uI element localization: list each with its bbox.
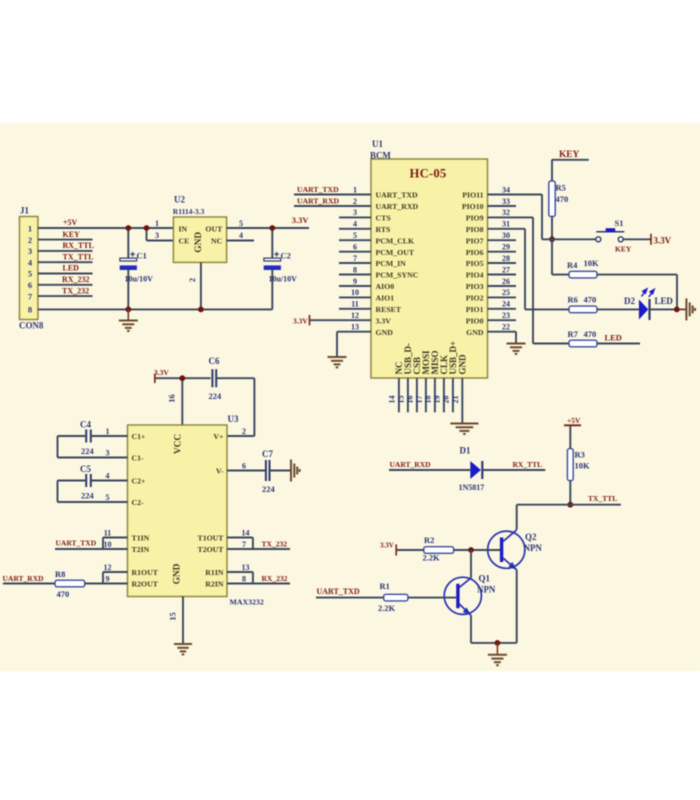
svg-text:470: 470	[556, 194, 569, 204]
svg-text:9: 9	[353, 277, 357, 286]
svg-text:CON8: CON8	[19, 321, 44, 331]
svg-text:10K: 10K	[584, 258, 599, 268]
U2 pin number 2 rotated	[187, 278, 197, 282]
wire UART_RXD to D1	[389, 469, 470, 471]
svg-text:PIO1: PIO1	[466, 305, 484, 314]
svg-text:C2+: C2+	[132, 477, 147, 486]
svg-text:KEY: KEY	[559, 150, 580, 160]
svg-text:R2IN: R2IN	[205, 580, 224, 589]
svg-text:21: 21	[451, 396, 460, 404]
svg-text:PIO4: PIO4	[466, 271, 484, 280]
net label RX_TTL	[63, 241, 95, 250]
svg-text:30: 30	[502, 231, 510, 240]
svg-text:RX_232: RX_232	[62, 275, 90, 284]
wire 3.3V port to pin12	[310, 319, 372, 321]
resistor R6 470	[568, 294, 598, 312]
svg-text:RTS: RTS	[376, 225, 391, 234]
svg-text:R6: R6	[568, 294, 578, 304]
wire S1 to 3.3V	[623, 238, 651, 240]
svg-text:6: 6	[353, 243, 357, 252]
wire R6 to D2	[597, 308, 639, 310]
svg-text:5: 5	[239, 219, 243, 228]
svg-text:3.3V: 3.3V	[376, 316, 392, 325]
wire KEY to R5	[551, 160, 553, 181]
svg-text:10: 10	[351, 288, 359, 297]
svg-text:UART_RXD: UART_RXD	[390, 460, 432, 469]
wire T1OUT/T2OUT TX_232	[227, 538, 290, 550]
U3 right pin numbers	[242, 427, 250, 584]
wire UART_RXD to pin2	[294, 205, 371, 207]
ground under C1	[119, 309, 138, 331]
U1 bottom pin stubs 14-21	[399, 378, 462, 423]
resistor R8 470	[55, 569, 85, 599]
net label RX_232	[62, 275, 90, 284]
svg-text:33: 33	[502, 197, 510, 206]
svg-text:2: 2	[187, 278, 197, 282]
wire +5V to R3	[569, 425, 571, 448]
svg-text:PCM_CLK: PCM_CLK	[376, 236, 415, 245]
svg-text:GND: GND	[173, 563, 183, 584]
svg-text:UART_TXD: UART_TXD	[317, 587, 360, 596]
U3 pin number 15 rotated	[168, 612, 178, 620]
wire V- to C7	[227, 470, 265, 472]
svg-text:UART_RXD: UART_RXD	[376, 202, 419, 211]
svg-text:S1: S1	[615, 218, 624, 228]
svg-text:19: 19	[433, 396, 442, 404]
svg-text:13: 13	[351, 323, 359, 332]
svg-text:PIO0: PIO0	[466, 316, 484, 325]
svg-text:10K: 10K	[575, 460, 590, 470]
svg-text:V-: V-	[216, 467, 224, 476]
net label TX_TTL	[63, 252, 94, 261]
junction LED cathode node	[674, 307, 680, 313]
svg-text:34: 34	[502, 185, 510, 194]
resistor R7 470	[568, 329, 598, 347]
svg-text:3: 3	[106, 449, 110, 458]
svg-text:V+: V+	[213, 432, 224, 441]
junction C1 top	[125, 225, 131, 231]
svg-text:R1114-3.3: R1114-3.3	[173, 207, 205, 216]
svg-text:8: 8	[242, 575, 246, 584]
wire CE branch	[147, 228, 174, 241]
svg-text:15: 15	[168, 612, 178, 620]
svg-text:14: 14	[388, 396, 397, 404]
svg-text:CTS: CTS	[376, 214, 391, 223]
U3 name VCC rotated	[174, 434, 184, 455]
svg-text:R2: R2	[424, 535, 434, 545]
bluetooth module U1 BCM HC-05	[370, 139, 488, 378]
U3 name GND rotated	[173, 563, 183, 584]
capacitor C1 10u/10V	[120, 228, 153, 309]
svg-text:31: 31	[502, 220, 510, 229]
svg-text:AIO0: AIO0	[376, 282, 395, 291]
U1 left pin names	[376, 191, 419, 337]
capacitor C7 224	[262, 449, 275, 494]
svg-text:2.2K: 2.2K	[378, 603, 396, 613]
svg-text:32: 32	[502, 208, 510, 217]
svg-text:10u/10V: 10u/10V	[269, 275, 298, 284]
wire U2 GND pin2 down	[200, 262, 202, 309]
svg-text:3.3V: 3.3V	[154, 368, 169, 377]
svg-text:R4: R4	[567, 260, 578, 270]
svg-text:AIO1: AIO1	[376, 294, 395, 303]
net label RX_232	[262, 574, 288, 583]
svg-text:1: 1	[155, 219, 159, 228]
svg-text:8: 8	[28, 305, 32, 315]
svg-text:UART_TXD: UART_TXD	[297, 185, 339, 194]
svg-text:25: 25	[502, 288, 510, 297]
svg-text:PIO9: PIO9	[466, 214, 484, 223]
net label TX_TTL	[588, 494, 617, 503]
svg-text:224: 224	[81, 490, 94, 500]
U1 bottom pin names rotated	[394, 341, 467, 375]
svg-text:R2OUT: R2OUT	[132, 580, 159, 589]
U2 pin name IN	[179, 224, 188, 233]
svg-text:8: 8	[353, 265, 357, 274]
wire D1 to RX_TTL	[483, 469, 545, 471]
svg-text:17: 17	[415, 396, 424, 404]
wire UART_RXD to R8	[3, 583, 55, 585]
svg-text:J1: J1	[20, 206, 29, 216]
svg-text:3.3V: 3.3V	[293, 316, 308, 325]
svg-text:1: 1	[28, 224, 32, 234]
svg-text:16: 16	[406, 396, 415, 404]
IC U3 MAX3232	[128, 414, 264, 607]
svg-text:24: 24	[502, 300, 510, 309]
svg-text:15: 15	[397, 396, 406, 404]
svg-text:20: 20	[442, 396, 451, 404]
svg-text:RESET: RESET	[376, 305, 402, 314]
capacitor C4 224	[58, 420, 128, 458]
svg-text:224: 224	[262, 484, 275, 494]
junction pin16 node	[179, 375, 185, 381]
ground right of C7	[291, 460, 300, 482]
power port 3.3V at S1	[651, 234, 672, 246]
svg-text:MAX3232: MAX3232	[230, 597, 264, 606]
svg-text:28: 28	[502, 254, 510, 263]
junction KEY node	[549, 236, 555, 242]
wire U1 pin32 to R7	[488, 217, 534, 343]
svg-text:470: 470	[584, 329, 597, 339]
svg-text:U1: U1	[372, 139, 383, 149]
svg-text:10: 10	[104, 540, 112, 549]
svg-text:PIO2: PIO2	[466, 294, 484, 303]
svg-text:13: 13	[242, 563, 250, 572]
wire R4 to LED cathode node	[597, 275, 677, 310]
svg-text:PIO3: PIO3	[466, 282, 484, 291]
U2 pin number 1	[155, 219, 159, 228]
power port 3.3V at U3 pin16	[154, 368, 169, 383]
junction Q2 base / Q1 collector	[468, 547, 474, 553]
wire TX_TTL to Q2 collector	[517, 505, 571, 530]
wire Q2 emitter down	[516, 570, 518, 643]
transistor Q1 NPN	[444, 574, 496, 616]
U2 pin name CE	[179, 237, 190, 246]
resistor R4 10K	[567, 258, 599, 278]
svg-text:1: 1	[106, 427, 110, 436]
ground right of D2	[686, 298, 695, 320]
wire 3.3V to C6 and pin16	[155, 378, 211, 425]
power port +5V	[564, 416, 581, 426]
wire R3 to TX_TTL node	[569, 481, 571, 505]
svg-text:4: 4	[353, 220, 357, 229]
svg-text:2: 2	[242, 427, 246, 436]
svg-text:C2: C2	[281, 250, 291, 260]
wire junction to S1	[542, 238, 596, 240]
net label LED at R7	[605, 333, 622, 343]
svg-text:UART_TXD: UART_TXD	[56, 538, 97, 547]
svg-text:R8: R8	[55, 569, 65, 579]
svg-text:+5V: +5V	[63, 218, 78, 227]
svg-text:C2-: C2-	[132, 498, 145, 507]
net label UART_RXD at R8	[3, 574, 45, 583]
svg-text:C1: C1	[137, 250, 147, 260]
svg-text:5: 5	[28, 269, 32, 279]
net label TX_232	[62, 286, 89, 295]
junction C1 bottom / ground node	[125, 307, 131, 313]
wire UART_TXD to R1	[316, 597, 384, 599]
svg-text:6: 6	[242, 462, 246, 471]
svg-text:T1IN: T1IN	[132, 534, 150, 543]
svg-text:224: 224	[209, 391, 222, 401]
wire R8 to R1OUT/R2OUT	[85, 572, 128, 584]
svg-text:11: 11	[351, 300, 359, 309]
net label UART_TXD at U1 pin1	[297, 185, 339, 194]
svg-text:1: 1	[353, 185, 357, 194]
diode D1 1N5817	[459, 446, 485, 493]
svg-text:PCM_IN: PCM_IN	[376, 259, 407, 268]
svg-text:U3: U3	[228, 414, 239, 424]
svg-text:C5: C5	[80, 464, 91, 474]
wire PIO8 to R6	[525, 308, 569, 310]
svg-text:7: 7	[353, 254, 357, 263]
wire Q1 emitter down	[470, 615, 472, 643]
svg-text:18: 18	[424, 396, 433, 404]
junction emitter ground node	[495, 640, 501, 646]
svg-text:4: 4	[106, 472, 110, 481]
svg-text:D2: D2	[624, 296, 635, 306]
U3 left pin names	[132, 432, 159, 589]
svg-text:D1: D1	[460, 446, 471, 456]
svg-text:16: 16	[167, 394, 177, 402]
svg-text:6: 6	[28, 280, 32, 290]
capacitor C2 10u/10V	[264, 228, 297, 309]
svg-text:Q2: Q2	[525, 532, 537, 542]
svg-text:3.3V: 3.3V	[654, 236, 672, 246]
net label UART_TXD at R1	[317, 587, 360, 596]
resistor R1 2.2K	[378, 581, 408, 613]
svg-text:R3: R3	[575, 449, 585, 459]
U1 left pin stubs 3-11	[339, 217, 371, 308]
svg-text:2.2K: 2.2K	[423, 553, 441, 563]
wire UART_TXD to pin1	[294, 194, 371, 196]
svg-text:3: 3	[155, 231, 159, 240]
svg-text:TX_232: TX_232	[262, 539, 288, 548]
wire J1 pin8 ground rail	[38, 308, 272, 310]
ground under Q1/Q2	[488, 643, 507, 665]
wire R1IN/R2IN RX_232	[227, 572, 290, 584]
resistor R2 2.2K	[423, 535, 454, 563]
wires J1 pins 2-7 net stubs	[38, 240, 93, 297]
U2 pin number 3	[155, 231, 159, 240]
U2 pin name GND rotated	[194, 232, 204, 253]
LED D2	[624, 289, 673, 320]
svg-text:PIO11: PIO11	[462, 191, 483, 200]
resistor R3 10K	[567, 449, 590, 481]
wire C7 to ground	[270, 470, 291, 472]
U2 pin name OUT	[205, 224, 223, 233]
svg-text:R1: R1	[380, 581, 390, 591]
svg-text:UART_TXD: UART_TXD	[376, 191, 419, 200]
svg-text:23: 23	[502, 311, 510, 320]
ground under U3 pin15	[174, 644, 192, 654]
U2 pin number 4	[239, 231, 243, 240]
wire U2 NC stub	[227, 240, 254, 242]
connector J1 CON8	[19, 206, 44, 331]
svg-text:CE: CE	[179, 237, 190, 246]
svg-text:GND: GND	[376, 328, 394, 337]
svg-text:TX_TTL: TX_TTL	[588, 494, 617, 503]
junction CE branch	[144, 225, 150, 231]
J1 pin numbers 1-8	[28, 224, 33, 315]
wire U1 pin34 to KEY node	[488, 195, 543, 240]
net label KEY top	[552, 150, 589, 160]
svg-text:LED: LED	[63, 264, 80, 273]
U1 right pin stubs	[488, 206, 517, 332]
svg-text:U2: U2	[174, 195, 185, 205]
svg-text:PIO6: PIO6	[466, 248, 484, 257]
wire TX_TTL right	[570, 504, 621, 506]
wire U1 pin13 GND down	[337, 332, 371, 356]
U1 left pin numbers 1-13	[351, 185, 359, 331]
svg-text:11: 11	[104, 529, 112, 538]
svg-text:RX_TTL: RX_TTL	[513, 460, 543, 469]
svg-text:R5: R5	[556, 183, 566, 193]
power port 3.3V at U1 pin12	[293, 315, 310, 325]
capacitor C5 224	[58, 464, 128, 502]
svg-text:T2OUT: T2OUT	[198, 545, 225, 554]
svg-text:27: 27	[502, 265, 510, 274]
svg-text:26: 26	[502, 277, 510, 286]
svg-text:3: 3	[28, 246, 32, 256]
net label +5V	[63, 218, 78, 227]
svg-text:3.3V: 3.3V	[292, 215, 310, 225]
U1 right pin numbers 34-22	[502, 185, 510, 331]
svg-text:NPN: NPN	[524, 543, 543, 553]
svg-text:R1OUT: R1OUT	[132, 568, 159, 577]
U3 right pin names	[198, 432, 225, 589]
svg-text:Q1: Q1	[479, 574, 490, 584]
wire PIO9 to R7	[533, 343, 569, 345]
svg-text:C4: C4	[80, 420, 91, 430]
wire R1 to Q1 base	[408, 597, 456, 599]
svg-text:KEY: KEY	[615, 244, 632, 253]
regulator U2 R1114-3.3	[173, 195, 227, 263]
ground under U1 pin21	[450, 424, 478, 434]
wire UART_TXD to T1IN/T2IN	[55, 538, 128, 550]
svg-text:14: 14	[242, 529, 250, 538]
svg-text:29: 29	[502, 243, 510, 252]
svg-text:GND: GND	[458, 354, 468, 375]
net label UART_RXD at D1	[390, 460, 432, 469]
svg-text:T1OUT: T1OUT	[198, 534, 225, 543]
svg-text:UART_RXD: UART_RXD	[3, 574, 45, 583]
svg-text:GND: GND	[466, 328, 484, 337]
svg-text:LED: LED	[605, 333, 622, 343]
svg-text:+5V: +5V	[567, 416, 581, 425]
svg-text:OUT: OUT	[205, 224, 223, 233]
U1 bottom pin numbers 14-21 rotated	[388, 396, 460, 404]
svg-text:3.3V: 3.3V	[380, 541, 395, 549]
wire D2 to ground node	[651, 308, 687, 310]
svg-text:KEY: KEY	[63, 230, 81, 239]
wire U3 pin15 GND down	[182, 597, 184, 644]
svg-text:3: 3	[353, 208, 357, 217]
svg-text:LED: LED	[655, 296, 673, 306]
svg-text:R1IN: R1IN	[205, 568, 224, 577]
resistor R5 470	[549, 181, 568, 217]
net label RX_TTL	[513, 460, 543, 469]
svg-text:PIO8: PIO8	[466, 225, 484, 234]
U1 right pin names	[462, 191, 484, 337]
capacitor C6 224	[209, 356, 222, 401]
net label UART_TXD at U3	[56, 538, 97, 547]
svg-text:C7: C7	[262, 449, 273, 459]
wire J1 pin1 +5V rail to U2 IN	[38, 227, 174, 229]
ground under U1 pin22	[507, 344, 526, 354]
wire KEY node down to R4	[552, 239, 569, 274]
svg-text:T2IN: T2IN	[132, 545, 150, 554]
U3 left pin numbers	[104, 427, 112, 584]
svg-text:12: 12	[351, 311, 359, 320]
wire 3.3V to R2	[396, 549, 424, 551]
svg-text:NC: NC	[211, 237, 223, 246]
svg-text:470: 470	[584, 294, 597, 304]
wire U1 pin22 GND down	[515, 332, 517, 343]
net label TX_232	[262, 539, 288, 548]
net label LED	[63, 264, 80, 273]
svg-text:9: 9	[106, 575, 110, 584]
svg-text:UART_RXD: UART_RXD	[297, 196, 340, 205]
svg-text:C1-: C1-	[132, 454, 145, 463]
wire U1 pin31 to R6	[488, 229, 526, 310]
svg-text:22: 22	[502, 323, 510, 332]
svg-text:10u/10V: 10u/10V	[125, 275, 154, 284]
svg-text:PIO10: PIO10	[462, 202, 484, 211]
svg-text:2: 2	[28, 235, 32, 245]
svg-text:PIO7: PIO7	[466, 236, 484, 245]
svg-text:RX_232: RX_232	[262, 574, 288, 583]
svg-text:C6: C6	[209, 356, 220, 366]
U2 pin number 5	[239, 219, 243, 228]
svg-text:TX_232: TX_232	[62, 286, 89, 295]
wire R2 to Q2 base	[454, 549, 500, 551]
svg-text:PCM_SYNC: PCM_SYNC	[376, 271, 419, 280]
net label 3.3V at U2 output	[292, 215, 310, 225]
wire U2 OUT 3.3V rail	[227, 227, 309, 229]
svg-text:GND: GND	[194, 232, 204, 253]
wire Q1/Q2 emitters to ground	[471, 642, 517, 644]
svg-text:1N5817: 1N5817	[459, 483, 485, 492]
svg-text:TX_TTL: TX_TTL	[63, 252, 94, 261]
transistor Q2 NPN	[488, 530, 543, 570]
U3 pin number 16 rotated	[167, 394, 177, 402]
switch S1 KEY	[596, 218, 632, 253]
U2 pin name NC	[211, 237, 223, 246]
power port 3.3V at R2	[380, 541, 396, 555]
svg-text:NPN: NPN	[477, 584, 496, 594]
wire R7 LED net	[597, 343, 640, 345]
